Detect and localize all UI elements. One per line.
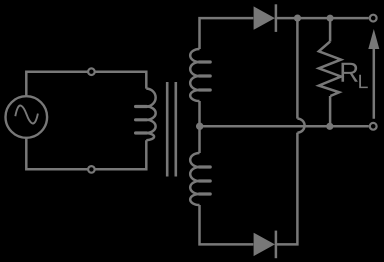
junction dot D1 output: [294, 15, 301, 22]
wire top rail after D1: [277, 17, 369, 20]
transformer secondary bottom L2b: [190, 153, 210, 205]
wire bottom rail after D2: [277, 133, 297, 245]
diode D1: [254, 4, 276, 32]
transformer secondary top L2a: [190, 49, 210, 101]
wire secondary middle stem: [198, 101, 201, 153]
wire primary top lead: [26, 72, 146, 97]
terminal output plus: [370, 15, 377, 22]
transformer core: [167, 82, 176, 177]
wire secondary top lead: [200, 18, 254, 49]
arrow output voltage: [368, 29, 379, 119]
junction dot resistor top: [327, 15, 334, 22]
wire center branch upper: [296, 18, 299, 119]
wire primary bottom lead: [26, 137, 146, 169]
wire resistor bottom lead: [329, 96, 332, 126]
diode D2: [254, 231, 276, 259]
junction dot center tap: [196, 123, 203, 130]
junction dot resistor bottom: [326, 123, 333, 130]
wire resistor top lead: [329, 18, 332, 41]
ac source V1: [6, 96, 48, 138]
terminal bottom-left: [88, 166, 95, 173]
wire hop over output: [297, 119, 304, 133]
wire output center tap: [200, 125, 369, 128]
transformer primary L1: [136, 89, 156, 141]
resistor RL: [319, 42, 341, 97]
terminal output minus: [370, 123, 377, 130]
wire secondary bottom lead: [200, 205, 254, 244]
label RL: [342, 63, 368, 88]
terminal top-left: [88, 68, 95, 75]
